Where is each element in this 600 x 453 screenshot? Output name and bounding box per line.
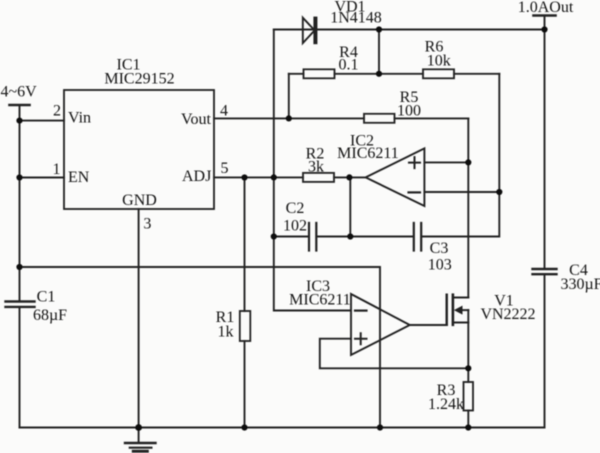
svg-text:MIC29152: MIC29152 — [104, 71, 174, 88]
svg-text:C3: C3 — [430, 240, 449, 257]
svg-text:VN2222: VN2222 — [480, 306, 535, 323]
svg-text:GND: GND — [122, 192, 157, 209]
svg-text:1.0AOut: 1.0AOut — [518, 0, 574, 16]
svg-text:4: 4 — [220, 103, 228, 120]
svg-text:330µF: 330µF — [560, 276, 600, 293]
svg-text:MIC6211: MIC6211 — [289, 291, 351, 308]
svg-text:EN: EN — [68, 169, 90, 186]
svg-text:2: 2 — [53, 103, 61, 120]
svg-text:10k: 10k — [427, 52, 451, 69]
svg-text:MIC6211: MIC6211 — [337, 145, 399, 162]
svg-text:1.24k: 1.24k — [428, 396, 464, 413]
svg-text:C2: C2 — [286, 200, 305, 217]
svg-text:5: 5 — [221, 160, 229, 177]
svg-text:3k: 3k — [308, 159, 324, 176]
svg-text:4~6V: 4~6V — [1, 84, 38, 101]
svg-text:103: 103 — [428, 256, 452, 273]
svg-text:ADJ: ADJ — [182, 168, 211, 185]
svg-text:0.1: 0.1 — [339, 57, 359, 74]
svg-text:100: 100 — [397, 103, 421, 120]
svg-text:3: 3 — [143, 216, 151, 233]
svg-text:68µF: 68µF — [33, 307, 67, 324]
svg-text:Vin: Vin — [68, 110, 91, 127]
svg-text:102: 102 — [283, 217, 307, 234]
svg-text:1: 1 — [53, 161, 61, 178]
svg-text:1N4148: 1N4148 — [330, 10, 382, 27]
svg-text:Vout: Vout — [181, 111, 211, 128]
svg-text:C1: C1 — [37, 288, 56, 305]
svg-text:1k: 1k — [218, 323, 234, 340]
